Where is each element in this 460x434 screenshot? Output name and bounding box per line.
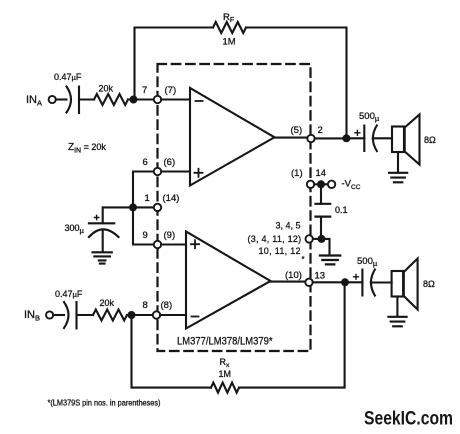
wire: speaker A to ground bbox=[397, 152, 399, 172]
svg-text:(8): (8) bbox=[161, 300, 173, 311]
capacitor C2 300u plates bbox=[89, 223, 119, 237]
svg-text:8Ω: 8Ω bbox=[423, 279, 435, 289]
capacitor C4 0.47uF input B coupling bbox=[64, 302, 77, 329]
svg-text:(7): (7) bbox=[165, 85, 177, 96]
wire: node 3,4,5 to ground bbox=[325, 239, 329, 255]
svg-text:1M: 1M bbox=[219, 369, 232, 379]
wire: node to C3 bbox=[350, 137, 364, 139]
wire: speaker B to ground bbox=[396, 297, 398, 317]
capacitor C3 500u plates bbox=[364, 126, 377, 152]
wire: pin 2 to output node A bbox=[315, 137, 343, 139]
svg-text:0.47µF: 0.47µF bbox=[54, 72, 82, 82]
svg-text:(1): (1) bbox=[291, 168, 303, 179]
ground pins 3,4,5 bbox=[320, 256, 340, 265]
capacitor C1 0.47uF input A coupling bbox=[67, 87, 80, 114]
svg-text:0.47µF: 0.47µF bbox=[55, 289, 83, 299]
wire: op-amp B output to pin 13 bbox=[271, 281, 306, 283]
svg-text:20k: 20k bbox=[99, 84, 114, 94]
resistor R1 20k input A bbox=[94, 94, 128, 105]
terminal IN_B bbox=[46, 311, 53, 318]
pin 6 terminal circle bbox=[154, 168, 161, 175]
svg-text:3, 4, 5: 3, 4, 5 bbox=[276, 221, 301, 231]
svg-text:14: 14 bbox=[316, 168, 327, 179]
wire: node C down to pin 9 bbox=[133, 211, 154, 244]
svg-text:INA: INA bbox=[26, 94, 42, 108]
svg-text:(14): (14) bbox=[163, 193, 180, 204]
junction node output B bbox=[341, 278, 349, 286]
capacitor C5 500u output B plus sign bbox=[354, 274, 359, 279]
capacitor C3 500u output A plus sign bbox=[355, 130, 360, 135]
speaker LS2 frame bbox=[392, 271, 404, 297]
wire: op-amp A output to pin 2 bbox=[275, 137, 308, 139]
wire: C2 to ground bbox=[102, 230, 104, 252]
wire: C2 up to node C and to pin1 bbox=[103, 207, 154, 223]
svg-text:20k: 20k bbox=[100, 298, 115, 308]
pin 14 terminal circle bbox=[307, 181, 314, 188]
op-amp A minus sign bbox=[196, 100, 203, 102]
op-amp U1B triangle bbox=[186, 232, 271, 329]
svg-text:13: 13 bbox=[315, 271, 326, 282]
junction node B (R3/RX/pin8) bbox=[128, 311, 136, 319]
svg-text:*: * bbox=[302, 255, 305, 264]
svg-text:LM377/LM378/LM379*: LM377/LM378/LM379* bbox=[177, 336, 273, 348]
wire: C1 to R1 bbox=[79, 98, 94, 100]
svg-text:8Ω: 8Ω bbox=[424, 135, 436, 145]
svg-text:10, 11, 12: 10, 11, 12 bbox=[259, 246, 301, 256]
wire: C3 to speaker A bbox=[373, 137, 392, 139]
svg-text:300µ: 300µ bbox=[65, 223, 85, 235]
svg-text:*(LM379S pin nos. in parenthes: *(LM379S pin nos. in parentheses) bbox=[48, 399, 161, 408]
pin 7 terminal circle bbox=[154, 96, 161, 103]
junction node output A bbox=[342, 134, 350, 142]
op-amp B plus sign bbox=[191, 240, 199, 248]
wire: node B to C5 bbox=[349, 281, 363, 283]
wire: pin 14 to VCC terminal bbox=[314, 183, 328, 185]
pin 1 terminal circle bbox=[154, 204, 161, 211]
wire: C4 to R3 bbox=[77, 314, 94, 316]
svg-text:-VCC: -VCC bbox=[342, 179, 361, 192]
capacitor C2 300u plus sign bbox=[94, 215, 98, 219]
ground speaker A bbox=[389, 173, 407, 183]
svg-text:RF: RF bbox=[223, 12, 234, 24]
pin 9 terminal circle bbox=[154, 241, 161, 248]
resistor R3 20k input B bbox=[93, 310, 127, 321]
wire: C5 to speaker B bbox=[371, 281, 392, 283]
speaker LS1 frame bbox=[392, 127, 404, 153]
wire: pin9 to op-amp B non-inverting input bbox=[161, 243, 186, 245]
speaker LS2 horn bbox=[404, 259, 418, 310]
junction node VCC bbox=[317, 180, 325, 188]
svg-text:(6): (6) bbox=[164, 157, 176, 168]
pin 8 terminal circle bbox=[153, 311, 160, 318]
wire: top feedback right segment (RF to output node A) bbox=[246, 28, 347, 135]
svg-text:(10): (10) bbox=[285, 270, 302, 281]
svg-text:INB: INB bbox=[24, 309, 40, 323]
wire: pin 3,4,5 to node bbox=[313, 238, 318, 240]
resistor RX bbox=[211, 383, 239, 393]
svg-text:SeekIC.com: SeekIC.com bbox=[364, 408, 453, 430]
junction node A (R1/RF/pin7) bbox=[130, 96, 138, 104]
wire: pin 13 to output node B bbox=[313, 281, 342, 283]
svg-text:ZIN = 20k: ZIN = 20k bbox=[68, 142, 106, 155]
svg-text:(5): (5) bbox=[291, 125, 303, 136]
junction node pins 3,4,5 bbox=[318, 235, 326, 243]
wire: RX to output node B bbox=[239, 286, 345, 388]
IC dashed outline LM377/LM378/LM379 bbox=[158, 64, 311, 351]
svg-text:2: 2 bbox=[318, 125, 323, 136]
svg-text:0.1: 0.1 bbox=[335, 205, 348, 215]
wire: VCC node down to C6 bbox=[320, 188, 322, 204]
ground C2 bbox=[93, 252, 112, 263]
op-amp U1A triangle bbox=[190, 88, 275, 186]
pin 13 terminal circle bbox=[305, 279, 312, 286]
wire: C6 to pin 3,4,5 node bbox=[320, 217, 322, 236]
wire: top feedback left segment (node A up and across to RF) bbox=[135, 28, 214, 101]
svg-text:9: 9 bbox=[143, 230, 148, 241]
resistor RF bbox=[213, 22, 246, 33]
pin 3,4,5 terminal circle bbox=[306, 235, 313, 242]
svg-text:Rx: Rx bbox=[220, 357, 231, 369]
svg-text:1M: 1M bbox=[223, 37, 236, 48]
wire: R3 to pin 8 bbox=[127, 314, 153, 316]
pin 2 terminal circle bbox=[307, 135, 314, 142]
capacitor C6 0.1 plates bbox=[316, 204, 331, 217]
wire: pin8 to op-amp B inverting input bbox=[160, 314, 186, 316]
terminal -VCC bbox=[328, 181, 335, 188]
wire: pin6 to op-amp A non-inverting input bbox=[161, 170, 190, 172]
wire: R1 to pin7 bbox=[128, 98, 154, 100]
terminal IN_A bbox=[49, 96, 56, 103]
svg-text:500µ: 500µ bbox=[357, 256, 378, 268]
wire: pin7 to op-amp A inverting input bbox=[161, 98, 190, 100]
svg-text:(9): (9) bbox=[164, 230, 176, 241]
svg-text:1: 1 bbox=[145, 193, 150, 204]
wire: IN_B terminal to C4 bbox=[53, 314, 64, 316]
svg-text:6: 6 bbox=[143, 157, 148, 168]
ground speaker B bbox=[388, 317, 406, 327]
wire: pin6 left and down to node C bbox=[133, 172, 154, 204]
speaker LS1 horn bbox=[405, 115, 420, 165]
svg-text:(3, 4, 11, 12): (3, 4, 11, 12) bbox=[248, 234, 302, 244]
svg-text:500µ: 500µ bbox=[359, 111, 380, 123]
svg-text:8: 8 bbox=[143, 300, 148, 311]
wire: IN_A terminal to C1 bbox=[56, 98, 67, 100]
op-amp B minus sign bbox=[192, 316, 199, 318]
wire: bottom feedback node B down and across to RX bbox=[132, 319, 212, 388]
svg-text:7: 7 bbox=[142, 85, 147, 96]
junction node C (C2/pin1/pin6/pin9) bbox=[129, 203, 137, 211]
capacitor C5 500u plates bbox=[362, 270, 375, 296]
op-amp A plus sign bbox=[195, 169, 203, 177]
